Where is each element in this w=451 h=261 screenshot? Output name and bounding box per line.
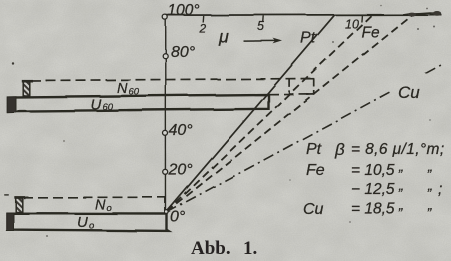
svg-text:„: „	[398, 158, 404, 174]
svg-text:5: 5	[257, 19, 264, 33]
svg-text:= 18,5: = 18,5	[351, 201, 395, 218]
svg-text:β: β	[334, 140, 345, 159]
svg-text:60: 60	[129, 87, 140, 98]
svg-text:Cu: Cu	[303, 201, 324, 218]
svg-text:„: „	[398, 197, 404, 213]
svg-text:;: ;	[438, 181, 442, 198]
svg-text:„: „	[427, 197, 433, 213]
svg-text:10: 10	[345, 18, 359, 32]
svg-text:80°: 80°	[171, 44, 196, 61]
svg-text:N: N	[95, 198, 106, 214]
svg-text:40°: 40°	[169, 122, 194, 139]
svg-text:Fe: Fe	[362, 25, 380, 42]
svg-text:20°: 20°	[168, 162, 194, 179]
svg-text:U: U	[77, 214, 88, 231]
svg-text:N: N	[117, 81, 128, 97]
svg-text:Abb.: Abb.	[191, 238, 231, 259]
svg-text:„: „	[398, 177, 404, 193]
svg-text:Pt: Pt	[300, 30, 316, 47]
svg-text:2: 2	[199, 22, 207, 36]
svg-text:60: 60	[103, 102, 114, 113]
svg-text:Pt: Pt	[306, 141, 322, 158]
svg-text:Cu: Cu	[398, 83, 420, 102]
svg-text:= 10,5: = 10,5	[351, 162, 395, 179]
svg-text:− 12,5: − 12,5	[351, 181, 395, 198]
svg-text:Fe: Fe	[306, 162, 325, 179]
svg-text:μ: μ	[218, 27, 229, 47]
svg-text:U: U	[91, 97, 102, 114]
svg-text:o: o	[107, 203, 112, 214]
svg-text:= 8,6 μ/1,°m;: = 8,6 μ/1,°m;	[351, 141, 445, 158]
svg-text:o: o	[89, 221, 94, 232]
svg-text:0°: 0°	[170, 209, 186, 226]
svg-text:100°: 100°	[168, 2, 200, 19]
svg-text:1.: 1.	[243, 238, 257, 259]
svg-text:„: „	[427, 158, 433, 174]
svg-text:„: „	[427, 177, 433, 193]
